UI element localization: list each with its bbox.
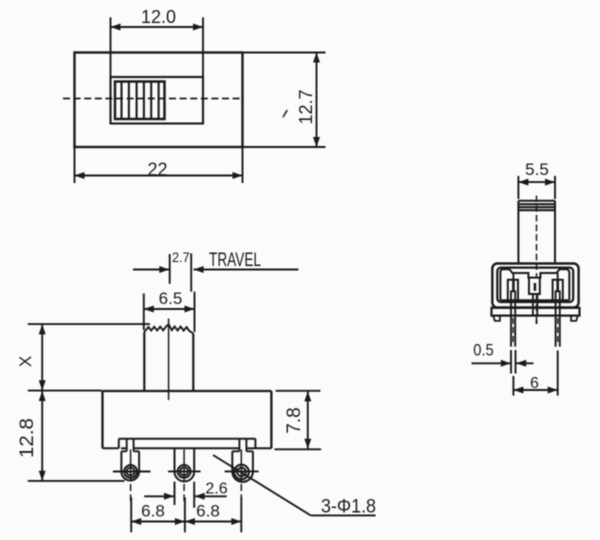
pin 3 crosshair horizontal [225, 470, 259, 472]
pin 2 hole outer circle [178, 465, 191, 478]
pin 3 hole outer circle [234, 465, 249, 480]
pin 1 hole outer circle [124, 465, 137, 478]
svg-text:6.8: 6.8 [141, 502, 165, 521]
dim 2.6: left arrow line [144, 495, 174, 497]
pin 1 body [126, 439, 128, 452]
front view: knob left side [143, 332, 145, 391]
pin 2 hole inner circle [180, 467, 188, 475]
dim 12.7: dimension line [316, 53, 318, 148]
side view: right pin below right edge [559, 316, 561, 347]
dim 6.5: left extension line [143, 294, 145, 331]
side view: vertical dashed centerline upper [536, 196, 538, 277]
svg-text:22: 22 [147, 160, 167, 180]
front view: right tab bottom [255, 447, 271, 449]
svg-text:6.8: 6.8 [196, 502, 220, 521]
front view: knob centerline [168, 319, 170, 401]
dim 6.5: right extension line [194, 292, 196, 332]
dim 6.5: left arrowhead [144, 306, 154, 313]
dim 0.5: left arrow line [472, 362, 511, 364]
side view: left pin dashed center [512, 318, 514, 345]
dim 2.6: left tick [174, 482, 176, 505]
dim 6.8: right arrowhead [231, 518, 241, 525]
svg-text:7.8: 7.8 [284, 407, 305, 433]
front view: body top edge [103, 390, 272, 392]
side view: base plate [492, 308, 580, 316]
front view: knob right side [192, 334, 194, 391]
dim 6.8: mid-left arrowhead [175, 518, 185, 525]
svg-text:6: 6 [530, 375, 539, 392]
svg-text:12.0: 12.0 [141, 7, 176, 27]
dim 0.5: right arrow line [516, 362, 533, 364]
svg-text:0.5: 0.5 [473, 341, 494, 360]
side view: center pedestal pin tick [534, 283, 537, 291]
dim 22: dimension line [75, 175, 243, 177]
dim 7.8: top arrowhead [304, 391, 311, 401]
pin 2 centerline [183, 450, 185, 482]
front view: base bottom segment 1 [121, 447, 127, 449]
svg-text:X: X [16, 356, 35, 367]
side view: left pin below right edge [514, 316, 516, 347]
side view: right pin below left edge [555, 316, 557, 347]
dim 2.7: left tick [169, 254, 171, 284]
dim 5.5: right extension line [554, 176, 556, 199]
side view: right slot antenna [557, 273, 559, 280]
side view: center pin left [532, 294, 534, 316]
dim 2.6: right tick [193, 482, 195, 508]
dim 12.8: top arrowhead [39, 391, 46, 401]
dim X: bottom arrowhead [39, 380, 46, 390]
svg-text:3-Φ1.8: 3-Φ1.8 [321, 497, 376, 518]
dim 5.5: left extension line [517, 176, 519, 199]
top view: slider ridges [122, 83, 159, 119]
svg-text:12.8: 12.8 [17, 418, 38, 458]
top view: recess rectangle [111, 77, 204, 124]
dim 2.6: left arrowhead [164, 493, 174, 500]
svg-text:6.5: 6.5 [159, 289, 183, 308]
pin 2 centerline dashes [183, 484, 185, 505]
dim 6.8: right tick [240, 497, 242, 532]
side view: cavity contour [500, 269, 569, 300]
dim 6.5: dimension line [144, 308, 195, 310]
side view: right pin top tick [556, 281, 559, 291]
dim 12.7: bottom arrowhead [313, 137, 320, 147]
side view: vertical dashed centerline lower [536, 295, 538, 324]
side view: body inner wall [497, 268, 573, 302]
leader underline [311, 514, 376, 516]
side view: left slot [508, 280, 518, 300]
dim X: top arrowhead [39, 324, 46, 334]
dim 7.8: top extension line [276, 390, 321, 392]
dim 12.8: bottom extension line [28, 480, 125, 482]
front view: bottom edge [119, 438, 256, 440]
dim 5.5: dimension line [518, 181, 555, 183]
travel arrow line [194, 269, 299, 271]
side view: right pin outline [556, 291, 560, 315]
side view: left pin outline [511, 291, 515, 315]
front view: base bottom segment 2 [134, 447, 239, 449]
dim 0.5: left extension line [510, 350, 512, 374]
dim 0.5: right extension line [515, 350, 517, 374]
front view: left tab side [118, 439, 120, 449]
dim 12.7: top arrowhead [313, 53, 320, 63]
dim 2.6: right arrow line [195, 495, 227, 497]
pin 1 centerline [130, 450, 132, 482]
side view: right foot [571, 316, 578, 321]
dim 22: right extension line [242, 148, 244, 183]
top view: horizontal centerline [63, 98, 244, 100]
dim 12.8: bottom arrowhead [39, 471, 46, 481]
dim 6.8: left tick [130, 497, 132, 532]
pin 1 centerline dashes [130, 484, 132, 501]
dim 2.7: left arrow line [133, 269, 169, 271]
pin 3 hole inner circle [237, 468, 246, 477]
side view: right pin dashed center [557, 318, 559, 345]
dim 2.6: right arrowhead [195, 493, 205, 500]
dim 6: right arrowhead [548, 387, 558, 394]
front view: base bottom segment 3 [246, 447, 255, 449]
dim 12.0: right arrowhead [193, 24, 203, 31]
dim 5.5: right arrowhead [545, 179, 555, 186]
dim 12.7: top extension line [243, 52, 326, 54]
pin 2 crosshair horizontal [168, 470, 201, 472]
top view: switch body outline [75, 53, 243, 148]
dim 6.8: mid-right arrowhead [185, 518, 195, 525]
dim 22: left arrowhead [75, 172, 85, 179]
side view: knob right side [554, 201, 556, 264]
side view: center pin stub dash [536, 320, 538, 325]
front view: left tab bottom [103, 447, 119, 449]
pin 3 body [238, 439, 240, 452]
side view: knob left side [517, 201, 519, 264]
dim 22: left extension line [74, 148, 76, 183]
side view: right slot [553, 280, 563, 300]
travel arrowhead [194, 266, 204, 273]
side view: left slot antenna [512, 273, 514, 280]
dim 6.8: left arrowhead [131, 518, 141, 525]
svg-text:2.6: 2.6 [205, 481, 227, 498]
front view: knob serrated top [144, 324, 193, 333]
front view: body right edge [270, 391, 272, 448]
dim X/12.8: middle extension line [28, 390, 102, 392]
svg-text:2.7: 2.7 [172, 249, 190, 265]
dim X: top extension line [28, 323, 150, 325]
dim 22: right arrowhead [233, 172, 243, 179]
dim 6: dimension line [513, 389, 557, 391]
side view: center pin right [536, 294, 538, 316]
side view: body outer shell [492, 264, 578, 308]
side view: left foot [493, 316, 500, 321]
dim 0.5: right arrowhead [516, 360, 526, 367]
pin 3 centerline dashes [240, 484, 242, 501]
dim 6.8: dimension line [131, 521, 241, 523]
dim 12.0: left arrowhead [111, 24, 121, 31]
top view: slider knob rectangle [115, 82, 165, 120]
svg-text:TRAVEL: TRAVEL [209, 250, 261, 271]
dim 6: left extension line [512, 376, 514, 396]
dim 6: right extension line [557, 351, 559, 396]
dim 2.7: right tick [190, 253, 192, 291]
side view: knob serration hatch lines [518, 204, 555, 210]
dim X: dimension line [41, 324, 43, 390]
front view: body left edge [101, 391, 103, 448]
dim 7.8: dimension line [307, 391, 309, 449]
dim 5.5: left arrowhead [518, 179, 528, 186]
pin 2 body [175, 448, 195, 481]
dim 12.0: left extension line [110, 17, 112, 76]
leader line to pin hole [213, 455, 311, 515]
pin 3 centerline [240, 450, 242, 482]
dim 12.0: dimension line [111, 26, 204, 28]
dim 12.0: right extension line [202, 17, 204, 76]
svg-text:12.7: 12.7 [296, 89, 316, 124]
side view: center pedestal [529, 278, 540, 294]
side view: left pin top tick [512, 281, 515, 291]
dim 12.7: bottom extension line [243, 146, 326, 148]
side view: knob top edge [518, 200, 555, 202]
dim 7.8: bottom arrowhead [304, 439, 311, 449]
side view: left pin below left edge [510, 316, 512, 347]
dim 12.8: dimension line [41, 391, 43, 481]
side view: cavity bottom line [500, 299, 569, 301]
svg-text:5.5: 5.5 [525, 160, 549, 179]
dim 6.5: right arrowhead [185, 306, 195, 313]
front view: right tab side [254, 439, 256, 449]
pin 1 crosshair horizontal [113, 471, 151, 473]
dim 2.7: left arrowhead [159, 266, 169, 273]
pin 1 hole inner circle [127, 468, 135, 476]
dim 6: left arrowhead [513, 387, 523, 394]
dim 0.5: left arrowhead [501, 360, 511, 367]
dim 7.8: bottom extension line [274, 448, 321, 450]
scan speck artifact [282, 109, 288, 118]
dim 6.8: middle tick [184, 497, 186, 532]
